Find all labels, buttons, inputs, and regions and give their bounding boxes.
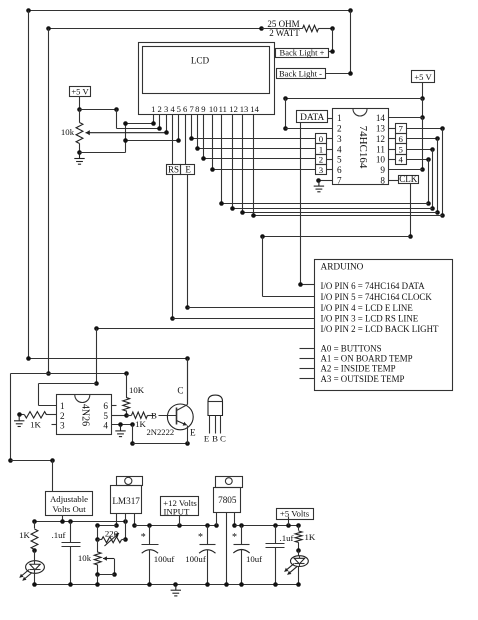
svg-text:4: 4 — [399, 155, 404, 165]
wire CLK horizontal — [263, 236, 411, 238]
node +12 stub — [177, 523, 182, 528]
wire LCD pin 9 — [203, 115, 205, 159]
svg-text:E: E — [190, 428, 196, 438]
svg-text:5: 5 — [337, 155, 342, 165]
node in leg — [132, 523, 137, 528]
svg-text:14: 14 — [376, 113, 386, 123]
node emitter bottom — [185, 441, 190, 446]
node collector rail left corner — [26, 356, 31, 361]
wire LCD pin7 to box 0 — [192, 138, 316, 140]
node wiper bottom — [112, 572, 117, 577]
wire adj jog — [98, 525, 117, 527]
wire second vertical rail — [48, 29, 50, 374]
svg-text:6: 6 — [103, 401, 108, 411]
svg-text:7: 7 — [190, 104, 195, 114]
wire LCD pin9 to box 2 — [204, 158, 316, 160]
node LCD pin1 — [151, 121, 156, 126]
power box Adjustable Volts Out — [46, 492, 93, 516]
package drawing TO-92 (2N2222 pinout) — [208, 395, 223, 415]
wire out leg to 220 — [125, 522, 127, 540]
svg-text:1: 1 — [319, 144, 323, 154]
node 220 right — [123, 537, 128, 542]
pot wiper arrow to LCD pin 3 — [86, 132, 167, 134]
wire collector rail right — [29, 358, 188, 360]
wire bus 7 vertical — [442, 129, 444, 216]
svg-text:1K: 1K — [30, 420, 41, 430]
node RS corner — [170, 316, 175, 321]
net label CLK — [399, 176, 419, 184]
wire +5V junction right — [80, 109, 117, 111]
wire box 7 right — [407, 128, 443, 130]
node U1 gnd corner — [316, 178, 321, 183]
node gnd LED1 — [32, 582, 37, 587]
svg-text:2N2222: 2N2222 — [147, 427, 175, 437]
wire LM317 adj leg — [116, 514, 118, 526]
wire to LCD pin 1 — [126, 123, 154, 125]
terminal box 6 (LCD data bit 6) — [396, 134, 407, 144]
svg-text:6: 6 — [183, 104, 188, 114]
wire bus 6 vertical — [437, 139, 439, 213]
node bus 5 top — [430, 147, 435, 152]
svg-text:DATA: DATA — [300, 113, 324, 123]
svg-text:1: 1 — [60, 401, 65, 411]
node backlight corner — [94, 326, 99, 331]
LED D2 (5V rail) — [298, 551, 300, 556]
wire U1 pin 8 stub — [389, 180, 399, 182]
svg-text:3: 3 — [337, 134, 342, 144]
node +5V tee — [420, 96, 425, 101]
node CLK corner left — [260, 234, 265, 239]
svg-text:5: 5 — [103, 411, 108, 421]
node 10K top corner — [124, 371, 129, 376]
svg-text:3: 3 — [319, 165, 324, 175]
wire A2 stub — [300, 368, 315, 370]
wire LCD pin 14 — [253, 115, 255, 216]
svg-text:4: 4 — [171, 104, 176, 114]
node bus 6 top — [435, 136, 440, 141]
node bus 4 top — [426, 157, 431, 162]
ground U1 — [314, 180, 324, 192]
wire CLK down — [410, 184, 412, 237]
node pin9 — [201, 156, 206, 161]
wire to LCD pin 2 — [117, 128, 160, 130]
svg-text:3: 3 — [164, 104, 168, 114]
node pin2 drop corner — [283, 96, 288, 101]
wire adj box to rail — [62, 516, 64, 522]
ground opto LED — [14, 415, 24, 427]
svg-text:3: 3 — [60, 421, 65, 431]
svg-text:A0 = BUTTONS: A0 = BUTTONS — [321, 343, 382, 353]
wire LM317 in leg — [134, 514, 136, 526]
wire +5 box stub — [288, 517, 290, 526]
svg-text:7: 7 — [337, 175, 342, 185]
svg-text:B: B — [151, 411, 157, 421]
wire backlight row to arduino — [97, 328, 315, 330]
wire backlight down — [96, 329, 98, 384]
wire bus 6 to LCD pin — [243, 212, 438, 214]
svg-text:+5 Volts: +5 Volts — [280, 509, 310, 519]
wire adj horizontal — [11, 373, 127, 375]
node DATA corner — [298, 282, 303, 287]
wire adj left down — [10, 374, 12, 461]
wire U2 pin3 stub — [52, 424, 57, 426]
node 7805 out — [232, 523, 237, 528]
node corner second wire — [46, 26, 51, 31]
node LCD pin2 — [157, 126, 162, 131]
wire box 6 right — [407, 138, 438, 140]
capacitor .1uf (adj rail) — [70, 522, 72, 543]
wire E line down — [187, 175, 189, 308]
node gnd .1uf — [68, 582, 73, 587]
wire collector vertical — [187, 359, 189, 405]
wire pin4 down — [132, 425, 134, 444]
regulator U3 LM317 body — [111, 486, 142, 514]
wire adj into box — [52, 461, 54, 492]
svg-text:10: 10 — [376, 155, 386, 165]
wire U2 pin4 right — [112, 424, 133, 426]
wire box 0 to U1 pin 3 — [327, 138, 333, 140]
node rail A out leg — [123, 519, 128, 524]
svg-text:14: 14 — [250, 104, 259, 114]
node gnd .1uf2 — [273, 582, 278, 587]
wire 7805 out leg — [234, 513, 236, 526]
svg-text:7: 7 — [399, 124, 404, 134]
wire adj down — [97, 526, 99, 540]
node LCD pin5 — [176, 138, 181, 143]
ARDUINO block — [315, 260, 453, 391]
svg-text:1K: 1K — [135, 419, 146, 429]
wire second horizontal (adjustable volts net) — [49, 28, 262, 30]
svg-text:B: B — [212, 434, 218, 444]
node resistor start — [259, 26, 264, 31]
wire bus 5 to LCD pin — [233, 208, 433, 210]
svg-text:I/O PIN 2 = LCD BACK LIGHT: I/O PIN 2 = LCD BACK LIGHT — [321, 324, 439, 334]
node 7805 in leg — [214, 523, 219, 528]
svg-text:.1uf: .1uf — [52, 530, 66, 540]
node +5 stub — [286, 523, 291, 528]
svg-text:+5 V: +5 V — [414, 72, 432, 82]
svg-text:4: 4 — [337, 144, 342, 154]
svg-text:CLK: CLK — [399, 174, 418, 184]
svg-text:10k: 10k — [61, 127, 75, 137]
wire LCD pin 6 (E) — [185, 115, 187, 165]
terminal box RS — [167, 165, 181, 175]
node pin2 row corner — [283, 126, 288, 131]
node cap1 top — [147, 523, 152, 528]
node bus 7 top — [440, 126, 445, 131]
wire to U1 pin 2 — [286, 128, 333, 130]
wire LCD pin 8 — [197, 115, 199, 149]
svg-text:220: 220 — [105, 529, 119, 539]
svg-text:12: 12 — [229, 104, 238, 114]
resistor 1K (5V indicator) — [298, 526, 300, 531]
node LCD pin bus 5 — [230, 206, 235, 211]
node adj leg — [114, 523, 119, 528]
wire CLK into arduino — [263, 296, 315, 298]
wire bus 4 to LCD pin — [222, 203, 429, 205]
svg-text:C: C — [177, 386, 183, 396]
svg-text:E: E — [185, 164, 191, 174]
node adj jog corner — [95, 523, 100, 528]
resistor 1K (opto LED) — [47, 414, 57, 416]
capacitor 10uf — [241, 526, 243, 545]
regulator U4 7805 tab — [216, 477, 243, 488]
wire +5V horizontal to U1 pin2 drop — [286, 98, 423, 100]
wire pot bottom right — [80, 152, 126, 154]
LCD module inner box — [143, 47, 270, 94]
svg-text:5: 5 — [399, 144, 404, 154]
svg-text:2 WATT: 2 WATT — [269, 28, 300, 38]
wire DATA down to arduino — [300, 123, 302, 285]
optocoupler U2 4N26 body — [57, 395, 112, 435]
ground main supply — [171, 584, 181, 596]
node gnd cap1 — [147, 582, 152, 587]
svg-text:13: 13 — [376, 124, 386, 134]
capacitor .1uf (5V rail) — [275, 526, 277, 544]
wire box 3 to U1 pin 6 — [327, 169, 333, 171]
wire emitter rail — [133, 443, 188, 445]
wire 7805 in leg — [216, 513, 218, 526]
wire +5V down — [422, 83, 424, 99]
power box +5 Volts — [277, 509, 314, 520]
node LCD pin bus 7 — [251, 213, 256, 218]
node resistor right end — [330, 26, 335, 31]
wire DATA box to U1 pin1 — [328, 118, 333, 120]
resistor 1K (base) — [132, 412, 148, 418]
wire +12V rail — [135, 525, 217, 527]
node U2 pin4 gnd — [118, 422, 123, 427]
wire adj bottom right — [11, 460, 53, 462]
wire ground rail — [35, 584, 299, 586]
svg-text:1K: 1K — [305, 532, 316, 542]
wire LCD pin 13 — [242, 115, 244, 213]
LED D1 (adjustable rail) — [34, 551, 36, 561]
svg-text:100uf: 100uf — [185, 554, 206, 564]
node collector top — [185, 356, 190, 361]
svg-text:A1 = ON BOARD TEMP: A1 = ON BOARD TEMP — [321, 354, 413, 364]
wire +5V rail — [235, 525, 299, 527]
wire +5V to junction — [79, 97, 81, 110]
svg-text:Back Light +: Back Light + — [280, 48, 325, 58]
svg-text:E: E — [204, 434, 209, 444]
node adj box corner — [50, 458, 55, 463]
node backlight elbow — [94, 381, 99, 386]
wire CLK down to arduino — [262, 237, 264, 297]
svg-text:Adjustable: Adjustable — [50, 494, 88, 504]
svg-text:8: 8 — [380, 175, 385, 185]
resistor 220 — [102, 537, 122, 543]
terminal box Back Light + — [276, 49, 329, 58]
node bus 5 bottom — [430, 206, 435, 211]
power +5 V (logic supply) — [412, 71, 435, 83]
node bus 4 bottom — [426, 201, 431, 206]
node gnd LED2 — [296, 582, 301, 587]
shift register U1 74HC164 body — [333, 109, 389, 185]
wire U1 pin 16 stub — [389, 149, 396, 151]
node gnd 7805 — [224, 582, 229, 587]
resistor 1K (adj indicator) — [34, 522, 36, 529]
ground pot — [74, 153, 84, 165]
power +5 V (LCD supply) — [70, 87, 91, 97]
node 10uf top — [239, 523, 244, 528]
svg-text:I/O PIN 3 = LCD RS LINE: I/O PIN 3 = LCD RS LINE — [321, 314, 419, 324]
wire drop to pin2 row — [285, 99, 287, 129]
node corner to pin2 — [114, 107, 119, 112]
wire left outer vertical rail to transistor collector — [28, 11, 30, 359]
wire LCD pin10 to box 3 — [213, 169, 316, 171]
wire U2 pin5 to base node — [112, 415, 127, 417]
terminal box E — [181, 165, 195, 175]
terminal box Back Light - — [277, 69, 326, 79]
LCD module outer box — [139, 43, 275, 115]
svg-text:74HC164: 74HC164 — [357, 126, 369, 169]
node cap2 top — [205, 523, 210, 528]
node pot bottom node — [95, 572, 100, 577]
wire box 4 right — [407, 159, 429, 161]
svg-text:ARDUINO: ARDUINO — [321, 263, 364, 273]
svg-text:6: 6 — [337, 165, 342, 175]
wire top outer horizontal (backlight- net) — [29, 10, 351, 12]
svg-text:I/O PIN 5 = 74HC164 CLOCK: I/O PIN 5 = 74HC164 CLOCK — [321, 292, 433, 302]
capacitor 100uf input 1 — [149, 526, 151, 545]
node top-right backlight- junction — [348, 8, 353, 13]
svg-text:10: 10 — [209, 104, 218, 114]
terminal box 3 (LCD data bit 3) — [316, 165, 327, 175]
node 1K2 top — [296, 523, 301, 528]
wire 7805 gnd leg — [226, 513, 228, 585]
node backlight+ stub — [330, 49, 335, 54]
wire bus 4 vertical — [428, 160, 430, 204]
regulator U3 LM317 tab — [117, 477, 143, 486]
node pin5 bus junction — [123, 138, 128, 143]
wire U1 pin 14 stub — [389, 128, 396, 130]
node emitter rail left — [130, 441, 135, 446]
wire +5V down to U1 pin9 — [422, 118, 424, 170]
node rail A cap stub — [68, 519, 73, 524]
wire to LCD pin 5 — [126, 140, 179, 142]
transistor Q1 2N2222 — [167, 404, 193, 430]
node above LED2 — [296, 548, 301, 553]
wire LCD pin 12 — [232, 115, 234, 209]
svg-text:6: 6 — [399, 134, 404, 144]
net label DATA — [297, 111, 328, 123]
wire U1 pin 7 to ground — [319, 180, 333, 182]
wire bus 5 vertical — [432, 150, 434, 209]
svg-text:1: 1 — [337, 113, 342, 123]
wire U2 pin6 stub — [112, 405, 117, 407]
wire A0 stub — [300, 348, 315, 350]
wire bus 7 to LCD pin — [254, 215, 443, 217]
svg-text:2: 2 — [158, 104, 162, 114]
node +5V junction — [77, 107, 82, 112]
wire down to LCD pin2 row — [116, 110, 118, 129]
wire Back Light - to top net — [326, 73, 351, 75]
svg-text:LM317: LM317 — [112, 496, 140, 506]
terminal box 1 (LCD data bit 1) — [316, 144, 327, 155]
node rail A box stub — [60, 519, 65, 524]
svg-text:*: * — [141, 532, 146, 543]
wire U1 pin 15 stub — [389, 138, 396, 140]
node E corner — [185, 305, 190, 310]
wire E to arduino — [188, 307, 315, 309]
wire U1 pin 9 — [389, 169, 423, 171]
wire wiper to pot bottom — [98, 574, 115, 576]
svg-text:10uf: 10uf — [246, 554, 262, 564]
wire backlight left — [39, 383, 97, 385]
node gnd pot — [95, 582, 100, 587]
svg-text:11: 11 — [376, 144, 385, 154]
wire LCD pin 2 — [159, 115, 161, 129]
node .1uf2 top — [273, 523, 278, 528]
node U1 pin9 junction — [420, 167, 425, 172]
svg-text:RS: RS — [168, 164, 179, 174]
svg-text:*: * — [232, 532, 237, 543]
wire output rail (adjustable) — [35, 521, 126, 523]
wire box 5 right — [407, 149, 433, 151]
svg-text:INPUT: INPUT — [164, 506, 191, 516]
svg-text:I/O PIN 6 = 74HC164 DATA: I/O PIN 6 = 74HC164 DATA — [321, 281, 426, 291]
svg-text:4: 4 — [103, 421, 108, 431]
wire pot to ground rail — [97, 575, 99, 585]
wire U1 pin 14 — [389, 117, 423, 119]
svg-text:.1uf: .1uf — [280, 533, 294, 543]
node pin4 corner — [130, 422, 135, 427]
terminal box 7 (LCD data bit 7) — [396, 124, 407, 134]
wire vertical ground bus x=125 — [125, 124, 127, 153]
wire backlight down to opto pin1 — [38, 384, 40, 406]
svg-text:LCD: LCD — [191, 56, 210, 66]
svg-text:A2 = INSIDE TEMP: A2 = INSIDE TEMP — [321, 364, 396, 374]
svg-text:9: 9 — [201, 104, 205, 114]
svg-text:2: 2 — [337, 124, 342, 134]
wire base — [159, 415, 177, 417]
node pin8 — [195, 146, 200, 151]
terminal box 0 (LCD data bit 0) — [316, 134, 327, 144]
node pin7 — [189, 136, 194, 141]
node rail A left end — [32, 519, 37, 524]
pot wiper arrow — [103, 558, 114, 560]
node base node — [124, 413, 129, 418]
svg-text:0: 0 — [319, 134, 324, 144]
node adj rail junction — [46, 371, 51, 376]
svg-text:7805: 7805 — [218, 495, 237, 505]
node corner top-left — [26, 8, 31, 13]
svg-text:+5 V: +5 V — [71, 87, 89, 97]
node bus 7 bottom — [440, 213, 445, 218]
svg-text:11: 11 — [219, 104, 227, 114]
node pin10 — [210, 167, 215, 172]
svg-text:1K: 1K — [19, 530, 30, 540]
wire U1 pin 17 stub — [389, 159, 396, 161]
svg-text:10K: 10K — [129, 385, 145, 395]
ground U2 pin4 — [115, 425, 125, 437]
capacitor 100uf input 2 — [207, 526, 209, 545]
svg-text:*: * — [198, 532, 203, 543]
resistor 25 OHM 2 WATT — [262, 28, 303, 30]
wire box 1 to U1 pin 4 — [327, 149, 333, 151]
node gnd main — [173, 582, 178, 587]
node 220 left — [95, 537, 100, 542]
wire LCD pin 11 — [221, 115, 223, 204]
wire LCD pin 3 — [166, 115, 168, 133]
node CLK corner — [408, 234, 413, 239]
svg-text:C: C — [220, 434, 226, 444]
wire +5V down to U1 pin14 — [422, 99, 424, 118]
svg-text:Volts Out: Volts Out — [52, 504, 86, 514]
wire LCD pin 10 — [212, 115, 214, 170]
wire DATA into arduino — [301, 284, 315, 286]
wire RS line down — [172, 175, 174, 319]
